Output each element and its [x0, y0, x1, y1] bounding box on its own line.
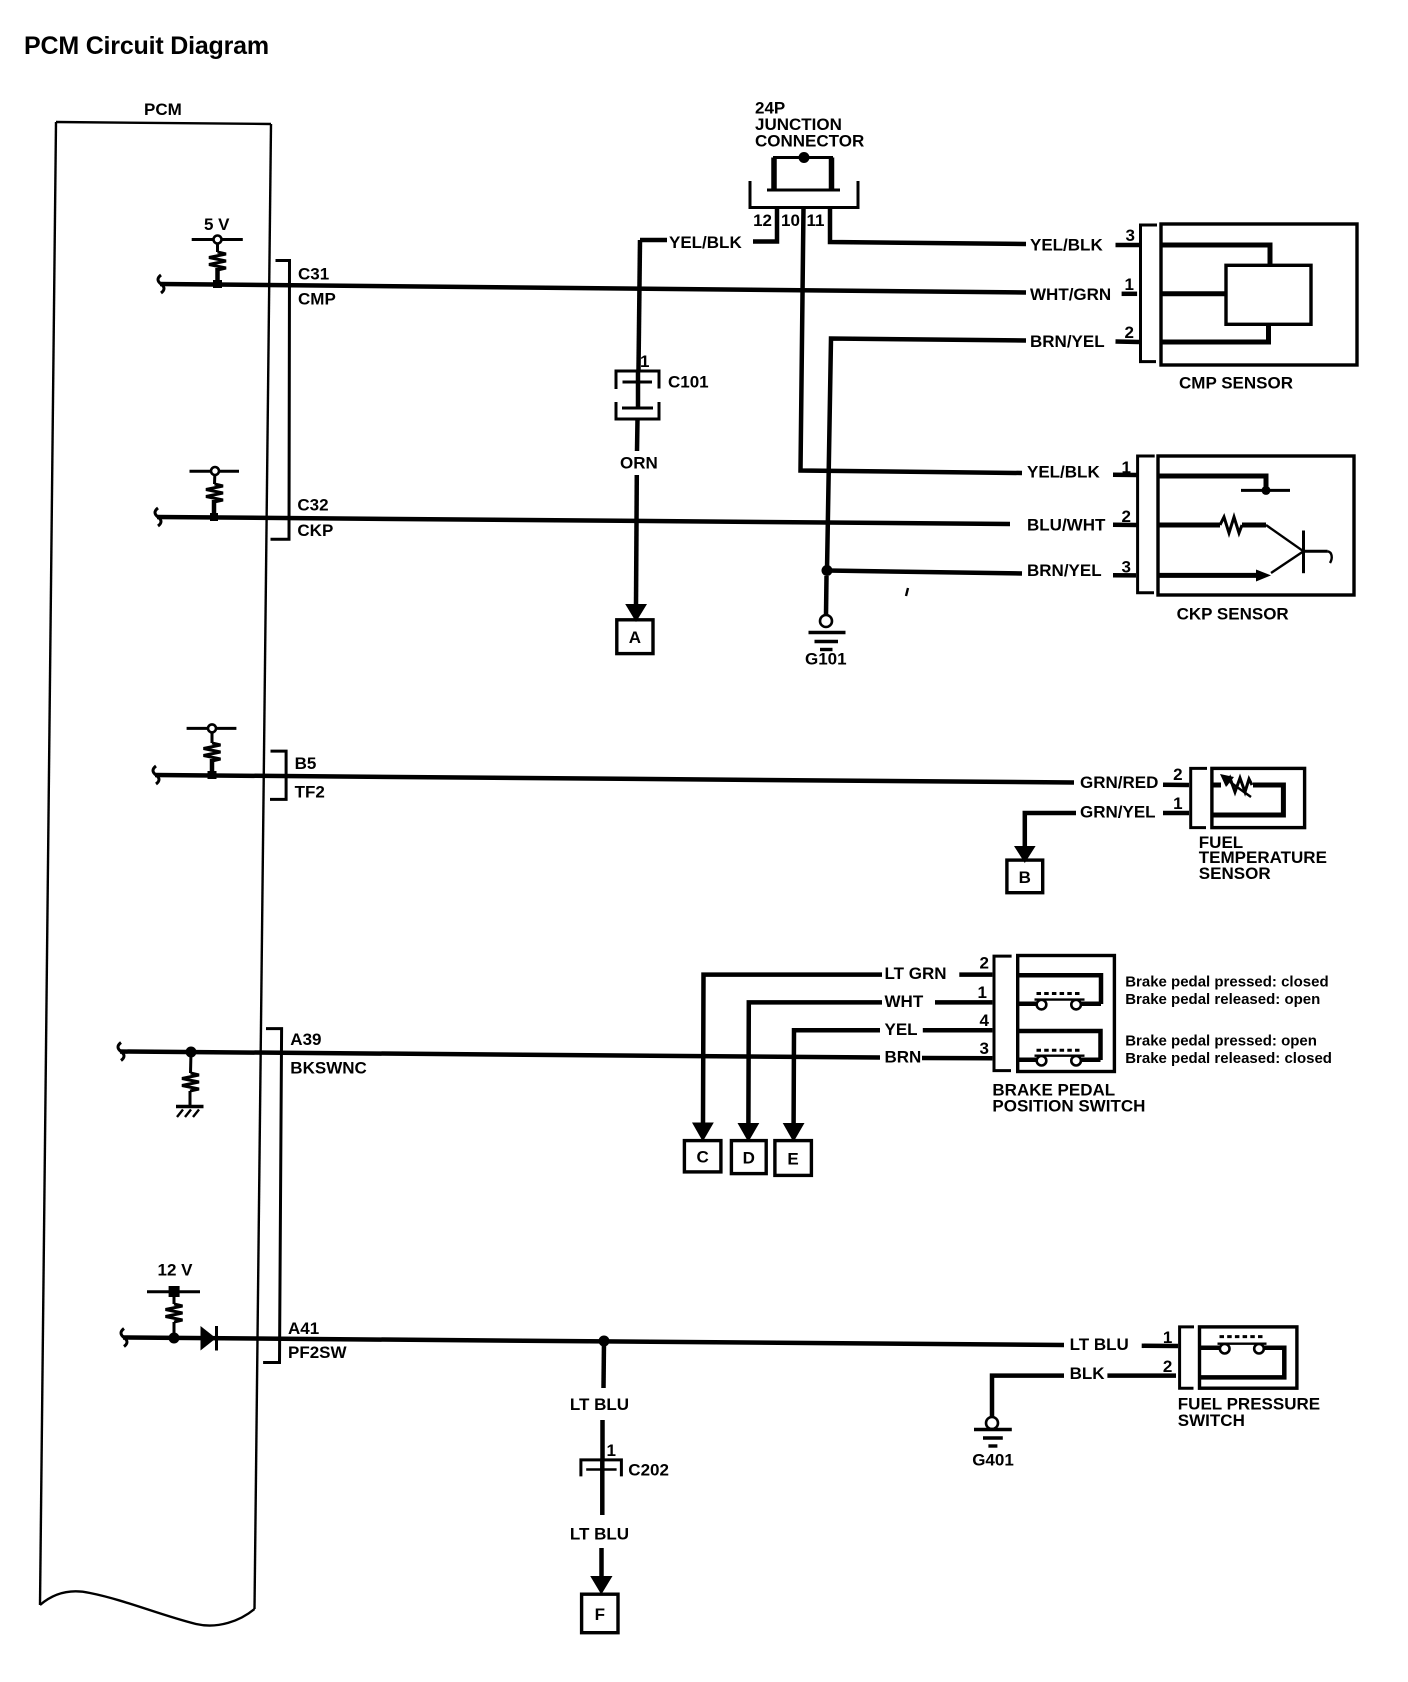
fuel pressure switch box [1200, 1327, 1297, 1388]
svg-text:G401: G401 [972, 1451, 1014, 1470]
node C31 / CMP labels [298, 265, 336, 309]
svg-text:1: 1 [1173, 794, 1182, 813]
24P junction connector labels [755, 99, 864, 151]
wire WHT from switch pin1 down to D [748, 992, 992, 1124]
12V supply symbol [147, 1261, 200, 1305]
svg-text:BRN/YEL: BRN/YEL [1030, 332, 1105, 351]
svg-text:5 V: 5 V [204, 215, 230, 234]
svg-text:D: D [743, 1149, 755, 1168]
svg-text:PF2SW: PF2SW [288, 1343, 348, 1362]
svg-text:TF2: TF2 [295, 783, 325, 802]
wire LT BLU lower [570, 1525, 629, 1578]
connector bracket B5 [270, 751, 286, 799]
svg-text:B5: B5 [295, 754, 317, 773]
svg-text:LT BLU: LT BLU [570, 1395, 629, 1414]
wire ORN [620, 419, 658, 605]
svg-text:BRN: BRN [885, 1048, 922, 1067]
CKP pickup coil: resistor and core [1159, 517, 1332, 582]
svg-text:1: 1 [1125, 275, 1134, 294]
svg-text:POSITION SWITCH: POSITION SWITCH [992, 1097, 1145, 1116]
wire WHT/GRN stub at CMP pin1 [1030, 285, 1137, 304]
svg-text:CMP SENSOR: CMP SENSOR [1179, 374, 1293, 393]
svg-text:ORN: ORN [620, 454, 658, 473]
CKP sensor connector bracket [1138, 456, 1155, 593]
connector bracket A39/A41 [263, 1029, 282, 1363]
svg-text:Brake pedal released: open: Brake pedal released: open [1125, 991, 1320, 1008]
svg-text:LT GRN: LT GRN [885, 964, 947, 983]
svg-text:G101: G101 [805, 650, 847, 669]
svg-text:2: 2 [1125, 323, 1134, 342]
fuel temperature sensor box [1212, 768, 1305, 827]
svg-text:2: 2 [1122, 507, 1131, 526]
svg-text:12 V: 12 V [158, 1261, 194, 1280]
CMP SENSOR label [1179, 374, 1293, 393]
svg-text:B: B [1019, 868, 1031, 887]
svg-text:YEL/BLK: YEL/BLK [1030, 236, 1103, 255]
connector bracket C31/C32 [271, 261, 290, 540]
svg-text:PCM Circuit Diagram: PCM Circuit Diagram [24, 32, 269, 60]
svg-text:CKP: CKP [297, 521, 333, 540]
svg-text:CMP: CMP [298, 290, 336, 309]
fuel temperature sensor bracket [1191, 768, 1207, 827]
wire BLU/WHT stub at CKP pin2 [1027, 516, 1137, 535]
resistor pull-down at A39 [182, 1052, 199, 1106]
wire pin12 YEL/BLK [640, 208, 777, 253]
svg-text:3: 3 [980, 1039, 989, 1058]
arrow to E [783, 1123, 805, 1142]
wire BRN/YEL from CMP pin2 down to ground [827, 332, 1139, 571]
CMP sensor pin numbers [1125, 226, 1135, 342]
junction dot 12V/diode [169, 1333, 180, 1344]
box A (off-page reference) [617, 620, 653, 654]
svg-text:2: 2 [980, 954, 989, 973]
wire LT BLU branch down [570, 1341, 629, 1459]
svg-text:3: 3 [1126, 226, 1135, 245]
junction dot BRN/YEL [822, 565, 833, 576]
PCM box (torn bottom edge) [40, 122, 271, 1626]
svg-text:C101: C101 [668, 373, 709, 392]
wire C32/CKP to sensor [155, 508, 1010, 526]
FUEL PRESSURE SWITCH label [1178, 1395, 1320, 1431]
svg-text:SENSOR: SENSOR [1199, 864, 1271, 883]
svg-text:CKP SENSOR: CKP SENSOR [1177, 605, 1289, 624]
supply symbol at C32 [190, 467, 240, 521]
fuel pressure switch contact set [1201, 1337, 1284, 1378]
thermistor inside fuel temperature sensor [1213, 774, 1283, 815]
chassis ground at A39 [176, 1107, 204, 1118]
svg-text:PCM: PCM [144, 100, 182, 119]
arrow to A [625, 604, 647, 622]
svg-text:BLK: BLK [1070, 1364, 1106, 1383]
wire GRN/YEL to B [1025, 803, 1189, 848]
resistor R-5V (pull-up at C31) [209, 252, 226, 288]
FUEL TEMPERATURE SENSOR label [1199, 833, 1327, 883]
junction connector symbol [750, 152, 858, 208]
ground G101 [805, 576, 847, 669]
svg-text:BKSWNC: BKSWNC [290, 1059, 367, 1078]
box E (off-page reference) [775, 1141, 812, 1176]
fuel pressure switch pin numbers [1163, 1328, 1172, 1376]
svg-text:A39: A39 [290, 1030, 321, 1049]
svg-text:10: 10 [781, 211, 800, 230]
arrow to D [738, 1123, 760, 1142]
svg-text:C32: C32 [297, 496, 328, 515]
arrow to B [1014, 846, 1036, 863]
node B5 / TF2 labels [295, 754, 325, 802]
CMP sensor inner element box [1226, 265, 1311, 324]
svg-text:2: 2 [1173, 765, 1182, 784]
svg-text:SWITCH: SWITCH [1178, 1411, 1245, 1430]
supply symbol at B5 [187, 724, 237, 779]
CMP sensor inner wiring [1162, 245, 1270, 342]
svg-text:Brake pedal pressed: closed: Brake pedal pressed: closed [1125, 974, 1328, 991]
svg-text:E: E [787, 1150, 798, 1169]
box C (off-page reference) [684, 1141, 721, 1172]
svg-text:YEL: YEL [885, 1020, 918, 1039]
svg-text:12: 12 [753, 211, 772, 230]
wire C31/CMP from PCM to sensor [158, 275, 1026, 293]
wire YEL/BLK vertical to C101 [639, 240, 641, 370]
svg-text:F: F [595, 1605, 605, 1624]
box D (off-page reference) [731, 1141, 766, 1174]
fuel pressure switch bracket [1180, 1327, 1194, 1388]
brake switch lower contact set [1018, 1031, 1101, 1065]
CKP sensor inner wiring: pin1 shield [1159, 476, 1290, 495]
svg-text:1: 1 [1163, 1328, 1172, 1347]
svg-text:WHT: WHT [885, 992, 924, 1011]
node C32 / CKP labels [297, 496, 333, 541]
ground G401 [972, 1417, 1014, 1470]
svg-text:C31: C31 [298, 265, 329, 284]
svg-text:C: C [696, 1148, 708, 1167]
resistor at A41 [166, 1304, 183, 1338]
connector C202 [581, 1441, 669, 1515]
PCM label [144, 100, 182, 119]
wire pin11 YEL/BLK to CMP pin3 [830, 208, 1139, 255]
wire A39/BKSWNC to brake pedal position switch (BRN) [118, 1043, 880, 1061]
wire pin10 to CKP pin1 (YEL/BLK) [801, 208, 1138, 482]
CKP SENSOR label [1177, 605, 1289, 624]
CKP sensor pin numbers [1122, 458, 1131, 577]
brake switch pin numbers 2 1 4 3 [978, 954, 990, 1059]
svg-text:BLU/WHT: BLU/WHT [1027, 516, 1106, 535]
svg-text:2: 2 [1163, 1357, 1172, 1376]
wire A41/PF2SW [121, 1329, 1064, 1347]
junction dot A39 pull-down [186, 1047, 197, 1058]
wire B5/TF2 to fuel temperature sensor (GRN/RED) [153, 766, 1074, 784]
CMP sensor outer box [1161, 224, 1357, 365]
diode D1 [201, 1326, 217, 1351]
svg-text:BRN/YEL: BRN/YEL [1027, 561, 1102, 580]
svg-text:LT BLU: LT BLU [1070, 1335, 1129, 1354]
svg-text:A: A [629, 628, 641, 647]
svg-text:GRN/YEL: GRN/YEL [1080, 803, 1156, 822]
arrow to F [590, 1576, 612, 1595]
junction pin numbers 12 10 11 [753, 211, 824, 230]
brake switch connector bracket [994, 956, 1012, 1071]
title: PCM Circuit Diagram [24, 32, 269, 60]
svg-text:4: 4 [980, 1011, 990, 1030]
svg-text:3: 3 [1122, 558, 1131, 577]
wire GRN/RED label and stub [1080, 773, 1189, 792]
svg-text:Brake pedal released: closed: Brake pedal released: closed [1125, 1050, 1332, 1067]
brake switch state notes [1125, 974, 1332, 1068]
wire YEL from switch pin4 down to E [794, 1020, 993, 1124]
arrow to C [692, 1123, 714, 1142]
svg-text:LT BLU: LT BLU [570, 1525, 629, 1544]
svg-text:1: 1 [640, 352, 649, 371]
svg-text:YEL/BLK: YEL/BLK [669, 233, 742, 252]
svg-text:GRN/RED: GRN/RED [1080, 773, 1158, 792]
svg-text:YEL/BLK: YEL/BLK [1027, 463, 1100, 482]
CKP sensor outer box [1158, 456, 1354, 595]
svg-text:1: 1 [1122, 458, 1131, 477]
wire BLK from switch pin2 to G401 [992, 1364, 1176, 1417]
svg-text:1: 1 [978, 983, 987, 1002]
svg-text:C202: C202 [628, 1461, 669, 1480]
svg-text:WHT/GRN: WHT/GRN [1030, 285, 1111, 304]
5V supply symbol [192, 215, 243, 252]
node A39 / BKSWNC labels [290, 1030, 367, 1078]
brake switch upper contact set [1018, 975, 1101, 1009]
wire BRN label and stub [885, 1048, 993, 1067]
wire LT GRN from switch pin2 down to C [703, 964, 992, 1124]
BRAKE PEDAL POSITION SWITCH label [992, 1081, 1145, 1116]
svg-text:11: 11 [807, 211, 825, 230]
fuel temperature sensor pin numbers [1173, 765, 1182, 813]
box B (off-page reference) [1007, 860, 1043, 893]
svg-text:1: 1 [607, 1441, 616, 1460]
box F (off-page reference) [582, 1594, 618, 1633]
wire LT BLU label and stub to fuel pressure switch [1070, 1335, 1178, 1354]
speck [906, 588, 908, 596]
junction dot LT BLU branch [599, 1336, 610, 1347]
svg-text:CONNECTOR: CONNECTOR [755, 132, 864, 151]
brake pedal position switch box [1018, 956, 1115, 1072]
node A41 / PF2SW labels [288, 1319, 348, 1362]
connector C101 [616, 352, 709, 419]
svg-text:Brake pedal pressed: open: Brake pedal pressed: open [1125, 1033, 1317, 1050]
CMP sensor connector bracket [1141, 225, 1158, 362]
wire BRN/YEL to CKP pin3 [827, 561, 1136, 580]
svg-text:A41: A41 [288, 1319, 319, 1338]
